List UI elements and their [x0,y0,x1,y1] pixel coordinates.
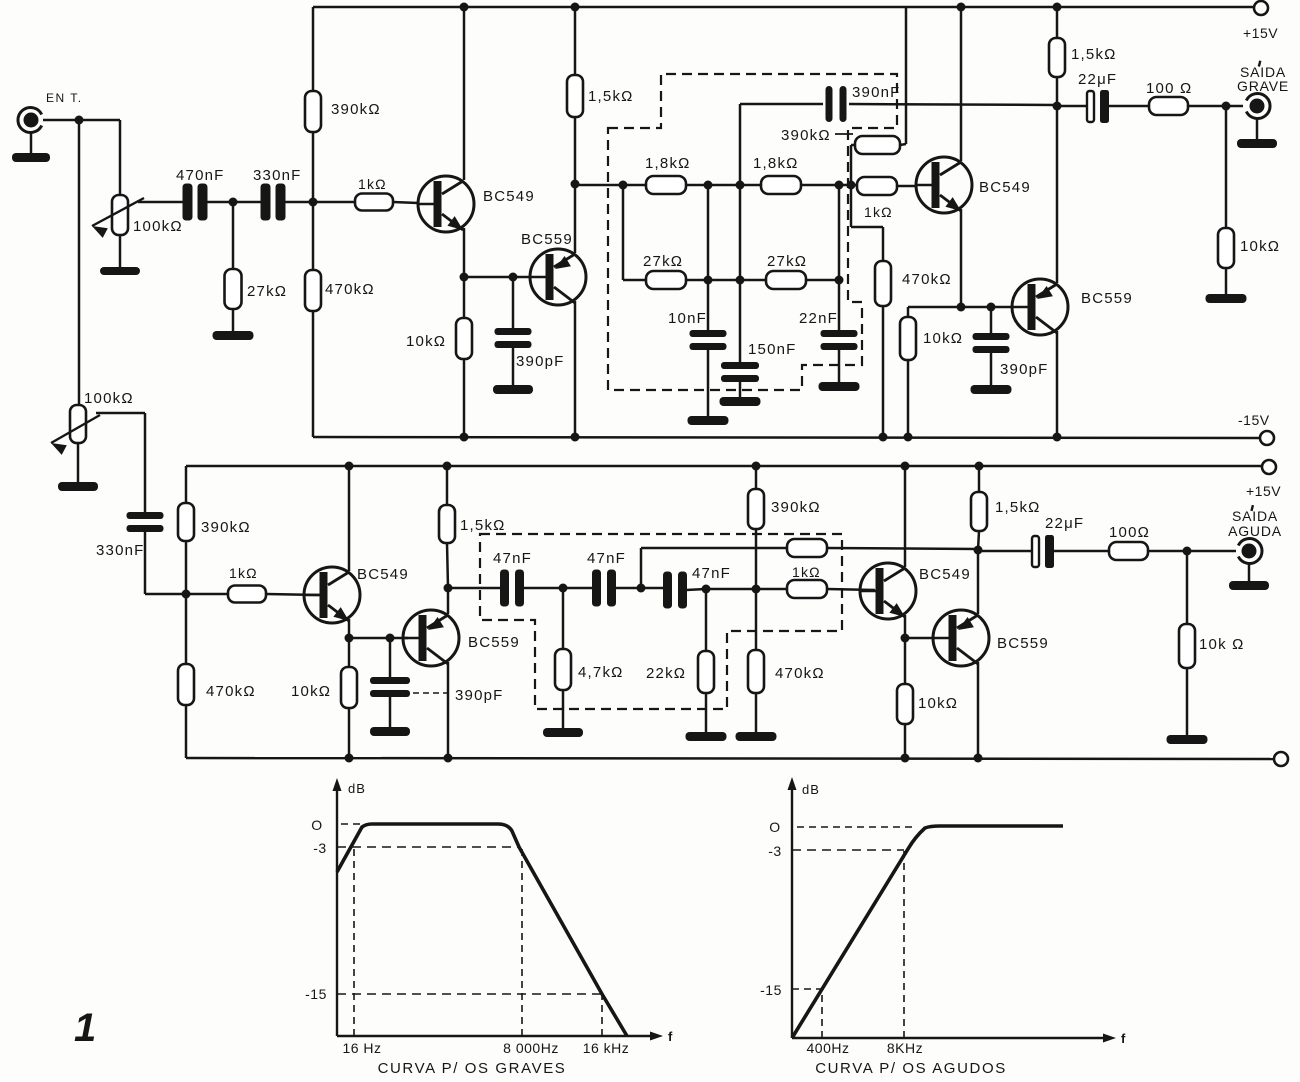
svg-text:10nF: 10nF [668,310,707,327]
svg-text:470kΩ: 470kΩ [902,271,952,288]
svg-text:390kΩ: 390kΩ [771,499,821,516]
svg-text:1kΩ: 1kΩ [229,565,258,581]
svg-text:100 Ω: 100 Ω [1146,80,1192,97]
svg-text:100Ω: 100Ω [1109,524,1150,541]
svg-text:47nF: 47nF [493,550,532,567]
svg-text:1,5kΩ: 1,5kΩ [1071,46,1117,63]
svg-text:-15: -15 [305,986,327,1002]
svg-text:1kΩ: 1kΩ [864,204,893,220]
svg-text:+15V: +15V [1243,25,1278,41]
svg-text:330nF: 330nF [253,167,302,184]
svg-text:10k Ω: 10k Ω [1199,636,1245,653]
svg-text:47nF: 47nF [587,550,626,567]
svg-text:CURVA P/ OS AGUDOS: CURVA P/ OS AGUDOS [815,1060,1007,1077]
svg-text:16 kHz: 16 kHz [583,1040,630,1056]
svg-text:CURVA P/ OS GRAVES: CURVA P/ OS GRAVES [378,1060,567,1077]
svg-text:1kΩ: 1kΩ [358,176,387,192]
svg-text:22nF: 22nF [799,310,838,327]
svg-text:AGUDA: AGUDA [1228,523,1282,539]
svg-text:100kΩ: 100kΩ [84,390,134,407]
svg-text:1,5kΩ: 1,5kΩ [460,517,506,534]
svg-text:f: f [1121,1031,1126,1046]
svg-text:470nF: 470nF [176,167,225,184]
svg-text:330nF: 330nF [96,542,145,559]
svg-text:1kΩ: 1kΩ [792,564,821,580]
svg-text:22kΩ: 22kΩ [646,665,686,682]
svg-text:10kΩ: 10kΩ [918,695,958,712]
svg-text:470kΩ: 470kΩ [775,665,825,682]
svg-text:SAIDA: SAIDA [1232,508,1278,524]
svg-text:O: O [311,817,322,833]
svg-text:1,8kΩ: 1,8kΩ [645,155,691,172]
svg-text:-15V: -15V [1238,412,1270,428]
svg-text:390kΩ: 390kΩ [331,101,381,118]
svg-text:BC549: BC549 [979,179,1031,196]
svg-text:-3: -3 [313,840,326,856]
svg-text:8 000Hz: 8 000Hz [503,1040,559,1056]
svg-text:10kΩ: 10kΩ [291,683,331,700]
svg-text:27kΩ: 27kΩ [767,253,807,270]
svg-text:22μF: 22μF [1078,71,1117,88]
svg-text:470kΩ: 470kΩ [325,281,375,298]
svg-text:1,5kΩ: 1,5kΩ [995,499,1041,516]
svg-text:BC549: BC549 [919,566,971,583]
svg-text:8KHz: 8KHz [887,1040,923,1056]
svg-text:27kΩ: 27kΩ [247,283,287,300]
svg-text:4,7kΩ: 4,7kΩ [578,664,624,681]
svg-text:16 Hz: 16 Hz [342,1040,381,1056]
svg-text:+15V: +15V [1246,483,1281,499]
svg-text:BC549: BC549 [357,566,409,583]
svg-text:150nF: 150nF [748,341,797,358]
svg-text:27kΩ: 27kΩ [643,253,683,270]
svg-text:O: O [769,819,780,835]
svg-text:dB: dB [348,781,366,796]
svg-text:10kΩ: 10kΩ [923,330,963,347]
svg-text:BC559: BC559 [521,231,573,248]
svg-text:-3: -3 [768,843,781,859]
svg-text:1: 1 [74,1006,96,1050]
svg-text:10kΩ: 10kΩ [406,333,446,350]
svg-text:BC559: BC559 [1081,290,1133,307]
svg-text:390pF: 390pF [516,353,565,370]
svg-text:47nF: 47nF [692,565,731,582]
svg-text:1,8kΩ: 1,8kΩ [753,155,799,172]
svg-text:10kΩ: 10kΩ [1240,238,1280,255]
svg-text:GRAVE: GRAVE [1237,78,1289,94]
svg-text:BC559: BC559 [468,634,520,651]
svg-text:390pF: 390pF [1000,361,1049,378]
svg-text:400Hz: 400Hz [807,1040,850,1056]
svg-text:BC549: BC549 [483,188,535,205]
svg-text:100kΩ: 100kΩ [133,218,183,235]
svg-text:390kΩ: 390kΩ [201,519,251,536]
svg-text:dB: dB [802,782,820,797]
svg-text:470kΩ: 470kΩ [206,683,256,700]
svg-text:f: f [668,1029,673,1044]
svg-text:390nF: 390nF [852,84,901,101]
svg-text:-15: -15 [760,982,782,998]
svg-text:390pF: 390pF [455,687,504,704]
svg-text:EN T.: EN T. [46,91,83,105]
svg-text:22μF: 22μF [1045,515,1084,532]
svg-text:390kΩ: 390kΩ [781,127,831,144]
svg-text:BC559: BC559 [997,635,1049,652]
svg-text:1,5kΩ: 1,5kΩ [588,88,634,105]
